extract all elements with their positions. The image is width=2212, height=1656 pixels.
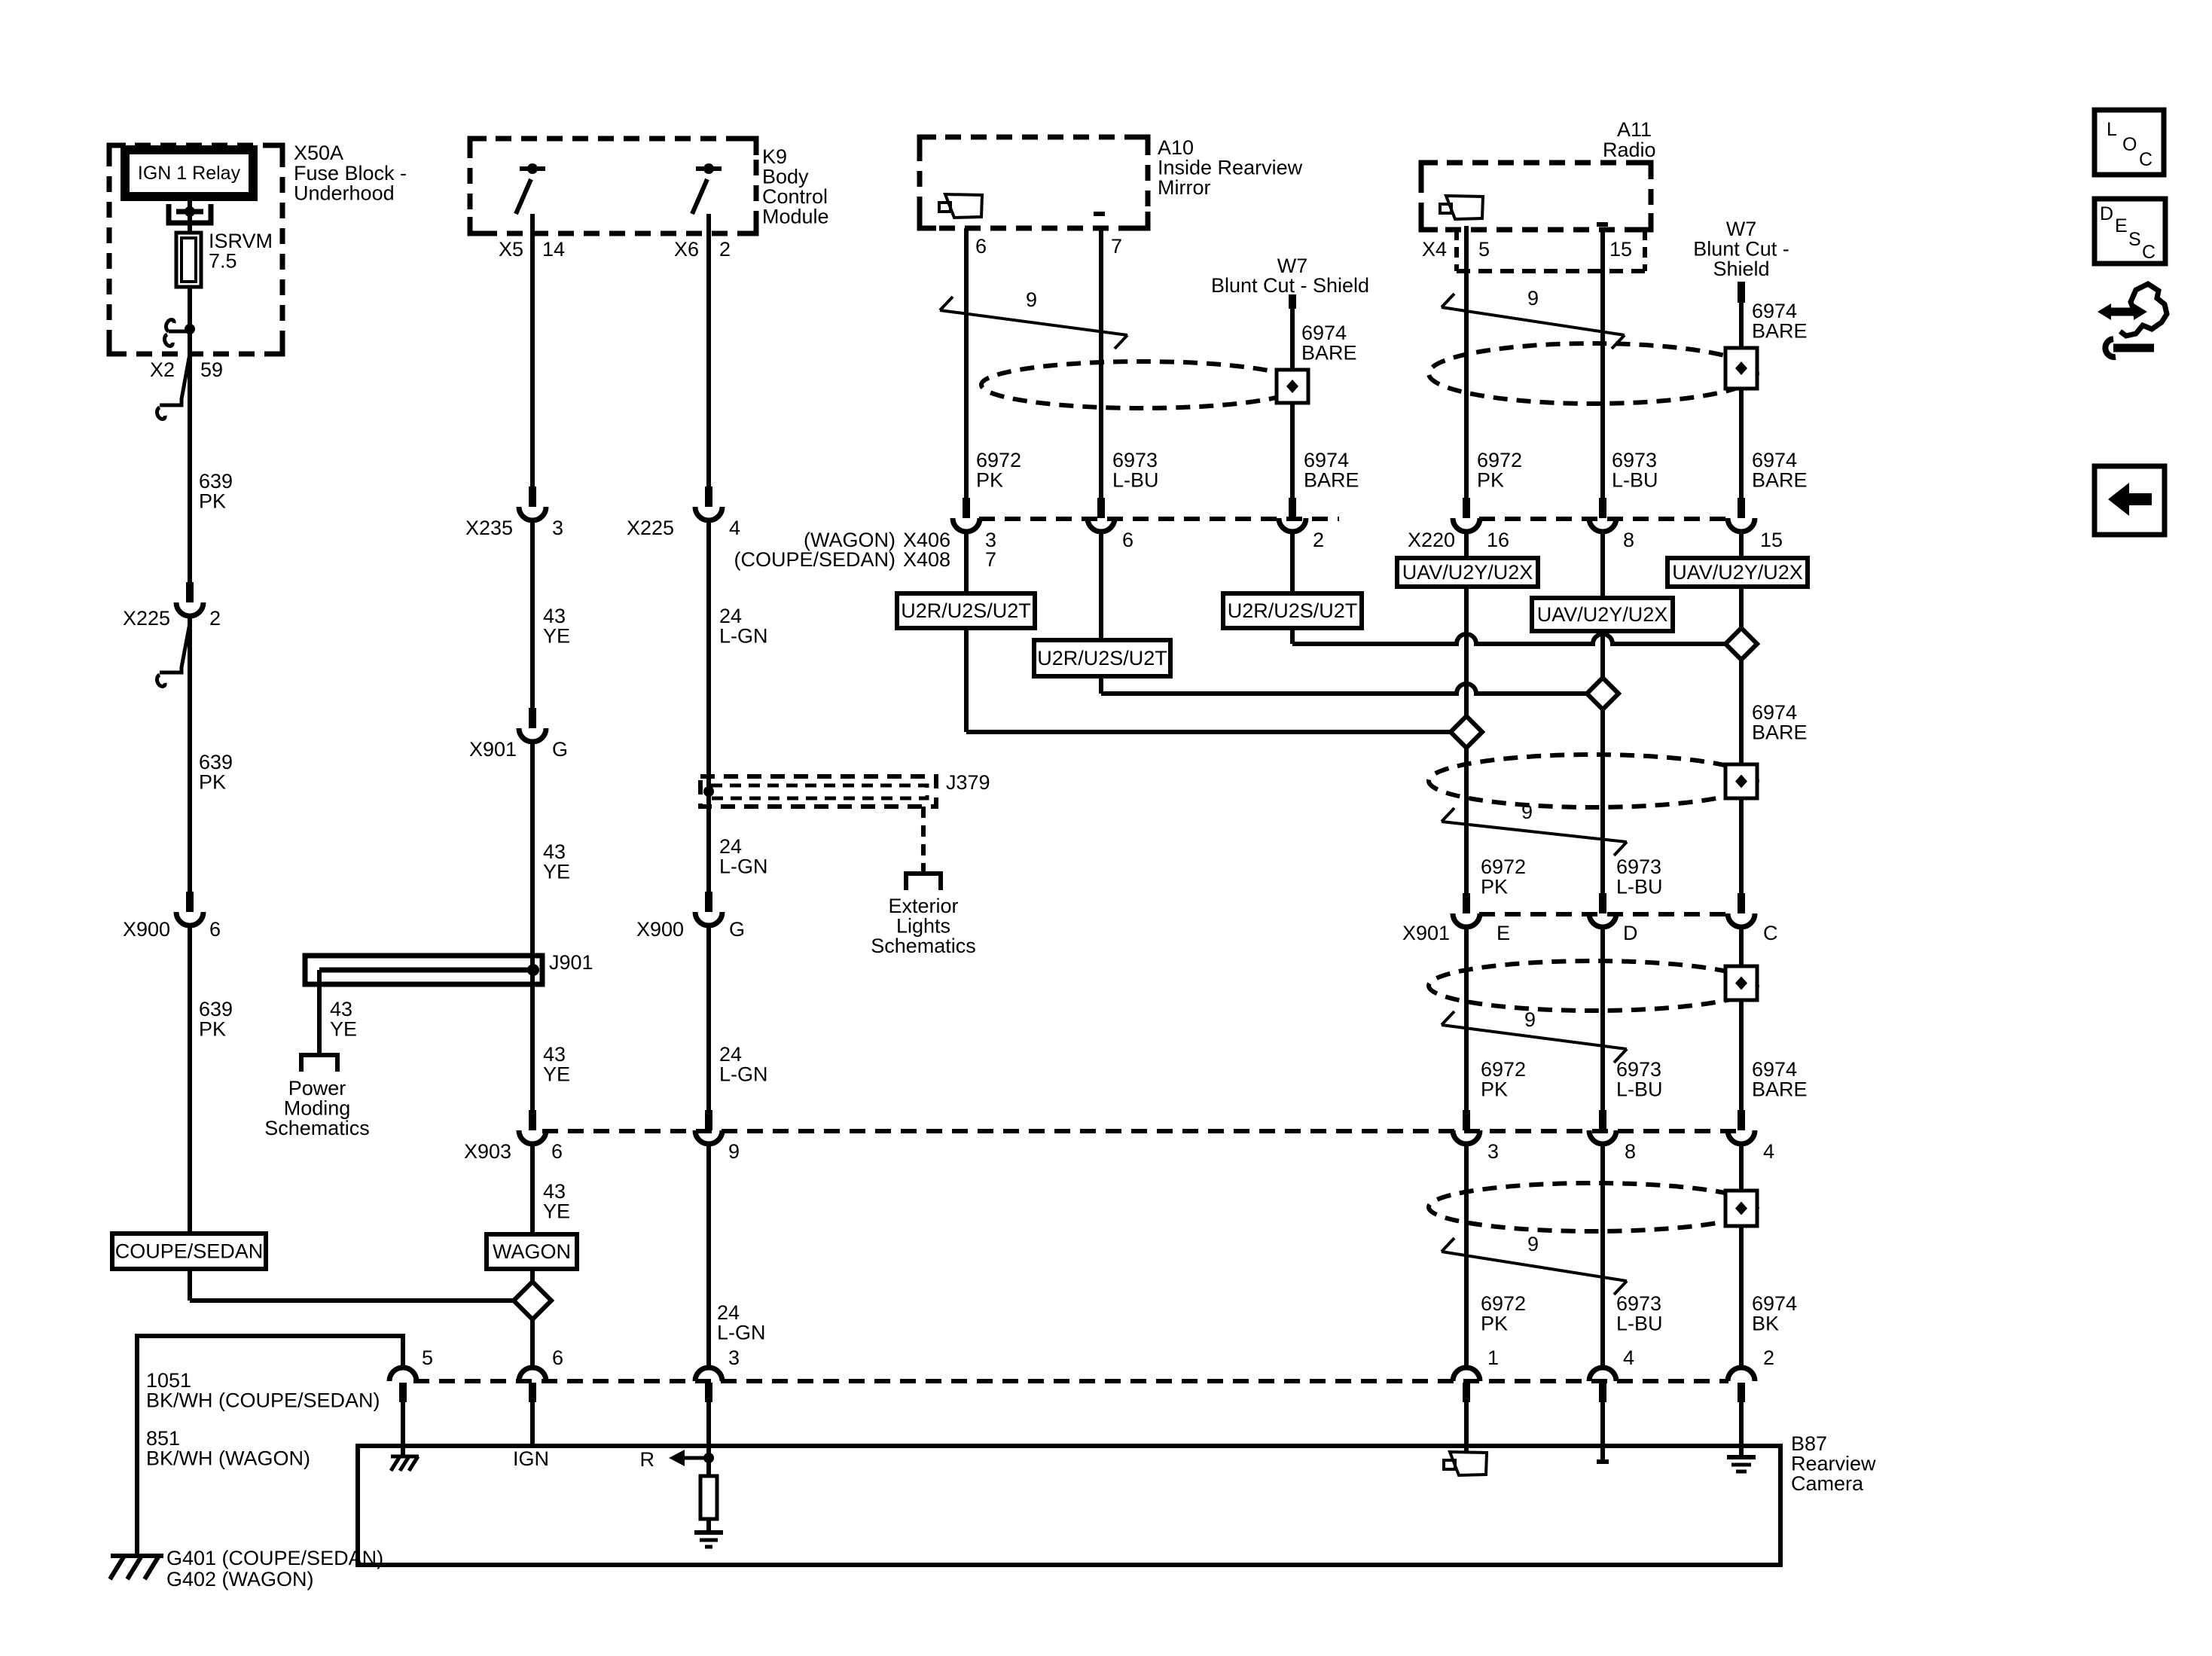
terminal junction at fuse block exit: [164, 320, 195, 346]
svg-text:E: E: [2115, 215, 2128, 236]
inside rearview mirror A10 dashed box: [920, 137, 1148, 228]
svg-text:A11: A11: [1617, 118, 1652, 141]
wire L-BU into U2R box: [1099, 532, 1103, 640]
wire 43 YE segment 2: [530, 520, 535, 708]
wire BARE into U2R box: [1290, 532, 1295, 593]
svg-text:C: C: [1763, 922, 1778, 944]
connector X903 pin 3: [1453, 1110, 1480, 1144]
svg-text:D: D: [1623, 922, 1638, 944]
svg-text:15: 15: [1609, 238, 1632, 261]
wire 6974 BARE down radio: [1739, 587, 1744, 893]
wire splice to camera conn: [530, 1319, 535, 1368]
RPO box U2R/U2S/U2T (PK): [897, 593, 1035, 628]
svg-text:2: 2: [1313, 529, 1324, 551]
wire 24 L-GN segment 2: [706, 520, 711, 892]
connector pin 6 to camera: [519, 1368, 546, 1402]
wire fuse to X2 terminal: [188, 287, 192, 354]
wire L-BU to camera conn: [1600, 1144, 1605, 1368]
svg-text:UAV/U2Y/U2X: UAV/U2Y/U2X: [1402, 561, 1533, 584]
svg-text:2: 2: [719, 238, 731, 261]
wire shield drain mirror: [1290, 309, 1295, 370]
svg-text:6: 6: [209, 918, 221, 941]
wire 6972 PK from A10 pin 6: [964, 228, 969, 498]
wire L-BU into UAV box: [1600, 532, 1605, 598]
wire BARE into UAV box: [1739, 532, 1744, 558]
connector X406/X408 pin 3/7: [953, 498, 980, 532]
off-page fork to Power Moding: [301, 1055, 337, 1072]
wire BARE into B87: [1739, 1402, 1744, 1455]
svg-text:Radio: Radio: [1603, 139, 1656, 161]
RPO box UAV/U2Y/U2X (PK): [1397, 558, 1538, 587]
svg-text:6973L-BU: 6973L-BU: [1612, 449, 1658, 492]
svg-text:C: C: [2142, 242, 2156, 263]
resistor in B87: [700, 1476, 717, 1519]
wire PK to camera conn: [1464, 1144, 1469, 1368]
connector X220 pin 16: [1453, 498, 1480, 532]
connector camera pin 4: [1589, 1368, 1616, 1402]
splice diamond PK: [1451, 716, 1482, 748]
svg-text:UAV/U2Y/U2X: UAV/U2Y/U2X: [1537, 603, 1668, 626]
wire count 9 slash radio 2: [1442, 801, 1627, 855]
wire IGN into B87: [530, 1402, 535, 1446]
wire 43 YE branch from J901: [317, 970, 322, 1054]
svg-text:X900: X900: [123, 918, 170, 941]
svg-text:4: 4: [1623, 1346, 1634, 1369]
shielded cable ellipse radio 2: [1429, 755, 1757, 807]
splice diamond BARE: [1725, 628, 1757, 660]
wire PK into UAV box: [1464, 532, 1469, 558]
shield termination box mirror: [1277, 370, 1308, 403]
svg-text:U2R/U2S/U2T: U2R/U2S/U2T: [1037, 647, 1167, 669]
svg-text:J379: J379: [946, 771, 990, 794]
wire BARE to X903: [1739, 927, 1744, 1110]
wire WAGON to splice: [530, 1269, 535, 1282]
svg-text:X903: X903: [464, 1140, 511, 1163]
svg-text:6: 6: [552, 1346, 563, 1369]
connector X406/X408 pin 6: [1088, 498, 1115, 532]
wire relay to fuse: [188, 197, 192, 233]
svg-text:6973L-BU: 6973L-BU: [1616, 855, 1663, 898]
RPO box UAV/U2Y/U2X (BARE): [1667, 558, 1808, 587]
wire to resistor: [706, 1458, 711, 1476]
off-page fork exterior lights: [906, 874, 941, 890]
wire below COUPE/SEDAN: [188, 1269, 192, 1301]
wire PK down to splice line: [964, 628, 969, 732]
svg-text:9: 9: [1026, 288, 1037, 311]
icon harness routing wrench: [2098, 284, 2167, 357]
ground IEC in B87: [694, 1532, 723, 1547]
wire PK splice line: [966, 730, 1451, 734]
shielded cable ellipse radio 3: [1429, 961, 1757, 1011]
shield termination box radio 2: [1725, 764, 1757, 798]
blunt cut stub W7 mirror: [1289, 294, 1296, 309]
svg-text:X6: X6: [674, 238, 699, 261]
svg-text:5: 5: [1478, 238, 1490, 261]
svg-text:L: L: [2107, 119, 2117, 140]
svg-text:7: 7: [1111, 235, 1122, 258]
svg-text:15: 15: [1760, 529, 1783, 551]
connector X901 pin C: [1728, 893, 1755, 927]
svg-text:7: 7: [985, 548, 996, 571]
connector X901 pin E: [1453, 893, 1480, 927]
wire 639 PK segment 2: [188, 616, 192, 892]
svg-text:8: 8: [1623, 529, 1634, 551]
connector X406/X408 pin 2: [1279, 498, 1306, 532]
wire resistor to ground: [706, 1519, 711, 1530]
wire L-BU down to splice line: [1099, 676, 1103, 694]
svg-text:6973L-BU: 6973L-BU: [1616, 1292, 1663, 1335]
wire 6973 L-BU down radio: [1600, 631, 1605, 893]
svg-text:4: 4: [1763, 1140, 1774, 1163]
svg-text:1: 1: [1487, 1346, 1499, 1369]
svg-text:C: C: [2139, 149, 2153, 170]
svg-text:4: 4: [729, 517, 740, 539]
connector X903 pin 6: [519, 1110, 546, 1144]
svg-text:X4: X4: [1422, 238, 1447, 261]
connector X235 pin 3: [519, 486, 546, 520]
wire BARE down to splice line: [1290, 628, 1295, 644]
wire L-BU into B87: [1600, 1402, 1605, 1459]
wire to splice diamond: [190, 1298, 514, 1303]
connector X4 dashed sub-box: [1457, 230, 1645, 271]
svg-text:8: 8: [1625, 1140, 1636, 1163]
svg-text:5: 5: [422, 1346, 433, 1369]
icon DESC box: [2095, 199, 2165, 264]
svg-text:9: 9: [1521, 801, 1533, 823]
svg-text:9: 9: [1524, 1008, 1536, 1031]
wire 43 YE segment 4: [530, 1144, 535, 1234]
icon LOC box: [2095, 110, 2164, 175]
svg-text:2: 2: [1763, 1346, 1774, 1369]
wire 6973 L-BU from A11 pin 15: [1600, 230, 1605, 498]
connector camera pin 2: [1728, 1368, 1755, 1402]
relay output terminal bracket: [169, 204, 211, 223]
wire 6974 BARE mirror to connector: [1290, 403, 1295, 498]
svg-text:59: 59: [200, 358, 223, 381]
shield termination box radio 1: [1725, 348, 1757, 389]
wire 24 L-GN segment 3: [706, 926, 711, 1110]
shield termination box radio 4: [1725, 1191, 1757, 1226]
svg-text:9: 9: [1527, 287, 1539, 310]
svg-text:3: 3: [552, 517, 563, 539]
icon back arrow box: [2095, 466, 2165, 535]
camera icon in A10: [939, 194, 982, 218]
chassis ground G401/G402: [110, 1556, 163, 1579]
switch contact X6 inside K9: [692, 163, 722, 214]
arrow R signal: [669, 1450, 709, 1466]
shield termination box radio 3: [1725, 966, 1757, 1000]
dashed connector line camera row: [413, 1379, 1728, 1383]
svg-text:6973L-BU: 6973L-BU: [1616, 1058, 1663, 1101]
svg-text:R: R: [640, 1448, 655, 1471]
relay K (IGN 1 Relay) box: [125, 150, 253, 197]
svg-text:16: 16: [1487, 529, 1509, 551]
shielded cable ellipse radio 1: [1429, 343, 1757, 404]
dashed branch to exterior lights: [921, 807, 926, 872]
wire shield drain radio: [1739, 303, 1744, 348]
svg-text:3: 3: [728, 1346, 740, 1369]
wire count 9 slash mirror: [940, 288, 1127, 349]
connector X900 pin G: [695, 892, 722, 926]
WAGON option box: [487, 1234, 577, 1269]
shielded cable ellipse mirror: [981, 361, 1302, 408]
svg-text:6: 6: [1122, 529, 1133, 551]
chassis ground in B87: [391, 1456, 419, 1471]
wire count 9 slash radio 4: [1442, 1233, 1627, 1295]
svg-text:2: 2: [209, 607, 221, 630]
wire PK to X903: [1464, 927, 1469, 1110]
svg-text:9: 9: [1527, 1233, 1539, 1255]
wire 43 YE from K9 X5-14: [530, 214, 535, 486]
minus terminal in B87: [1597, 1459, 1609, 1464]
svg-text:X225: X225: [627, 517, 674, 539]
wire BARE to camera conn: [1739, 1144, 1744, 1368]
svg-text:3: 3: [1487, 1140, 1499, 1163]
connector X225 pin 2: [176, 582, 203, 616]
camera icon in A11: [1440, 196, 1483, 219]
svg-text:X2: X2: [150, 358, 175, 381]
connector X900 pin 6: [176, 892, 203, 926]
svg-text:IGN: IGN: [513, 1447, 549, 1470]
fuse ISRVM 7.5: [176, 233, 201, 287]
svg-text:Fuse Block -Underhood: Fuse Block -Underhood: [294, 162, 407, 205]
blunt cut stub W7 radio: [1738, 282, 1745, 303]
svg-text:G: G: [729, 918, 745, 941]
connector X220 pin 8: [1589, 498, 1616, 532]
RPO box U2R/U2S/U2T (L-BU): [1034, 640, 1170, 676]
COUPE/SEDAN option box: [112, 1234, 266, 1269]
svg-text:COUPE/SEDAN: COUPE/SEDAN: [115, 1240, 264, 1263]
splice pack J901 box: [305, 956, 542, 984]
camera icon in B87: [1444, 1452, 1487, 1475]
svg-text:9: 9: [728, 1140, 740, 1163]
wire ground G401 path: [137, 1336, 403, 1554]
wire 639 PK segment 1: [188, 354, 192, 582]
switch contact X5 inside K9: [516, 163, 545, 214]
connector X225 jog symbol: [157, 624, 190, 686]
wire ground into B87: [401, 1402, 405, 1456]
connector X225 pin 4: [695, 486, 722, 520]
fuse block X50A dashed box: [109, 145, 282, 354]
svg-text:O: O: [2122, 134, 2137, 155]
wire 6972 PK down radio: [1464, 587, 1469, 893]
svg-text:J901: J901: [549, 951, 593, 974]
connector X903 pin 4: [1728, 1110, 1755, 1144]
svg-text:X220: X220: [1408, 529, 1455, 551]
wire 6974 BARE radio to connector: [1739, 389, 1744, 498]
svg-text:E: E: [1497, 922, 1510, 944]
wire PK into U2R box: [964, 532, 969, 593]
splice diamond L-BU: [1587, 678, 1619, 709]
radio A11 dashed box: [1421, 163, 1651, 230]
ground IEC in B87 right: [1727, 1457, 1756, 1471]
svg-text:IGN 1 Relay: IGN 1 Relay: [138, 163, 241, 184]
svg-text:S: S: [2128, 229, 2141, 250]
svg-text:X901: X901: [1402, 922, 1450, 944]
svg-text:X50A: X50A: [294, 142, 343, 164]
wire count 9 slash radio 3: [1442, 1008, 1627, 1063]
wire L-BU splice line with hop: [1101, 684, 1588, 694]
svg-text:X235: X235: [465, 517, 513, 539]
svg-text:X225: X225: [123, 607, 170, 630]
wire 6973 L-BU from A10 pin 7: [1099, 228, 1103, 498]
svg-text:Blunt Cut - Shield: Blunt Cut - Shield: [1211, 274, 1369, 297]
svg-text:6973L-BU: 6973L-BU: [1112, 449, 1159, 492]
body control module K9 dashed box: [470, 139, 756, 233]
wire 24 L-GN from K9 X6-2: [706, 214, 711, 486]
wire 6972 PK from A11 pin 5: [1464, 226, 1469, 498]
connector X2 jog symbol: [157, 354, 190, 419]
svg-text:G: G: [552, 738, 568, 761]
svg-text:U2R/U2S/U2T: U2R/U2S/U2T: [1228, 599, 1358, 622]
wire PK into B87: [1464, 1402, 1469, 1452]
dashed connector line X901 row: [1479, 912, 1728, 916]
connector camera pin 1: [1453, 1368, 1480, 1402]
splice diamond S-wagon: [514, 1282, 551, 1319]
dashed connector line X406 row: [979, 517, 1339, 521]
svg-text:X5: X5: [499, 238, 523, 261]
junction dot R: [703, 1453, 714, 1463]
wire BARE splice line with hops: [1292, 634, 1726, 644]
connector camera pin 5 ground: [389, 1368, 416, 1402]
wire 43 YE segment 3: [530, 742, 535, 1110]
RPO box U2R/U2S/U2T (BARE): [1223, 593, 1362, 628]
wire L-BU to X903: [1600, 927, 1605, 1110]
minus terminal in A11: [1597, 222, 1608, 227]
svg-text:14: 14: [542, 238, 565, 261]
connector X901 pin D: [1589, 893, 1616, 927]
connector X220 pin 15: [1728, 498, 1755, 532]
svg-text:UAV/U2Y/U2X: UAV/U2Y/U2X: [1672, 561, 1803, 584]
shielded cable ellipse radio 4: [1429, 1183, 1757, 1231]
svg-text:6: 6: [551, 1140, 563, 1163]
svg-text:WAGON: WAGON: [493, 1240, 571, 1263]
wire count 9 slash radio: [1442, 287, 1625, 349]
svg-text:X408: X408: [903, 548, 950, 571]
connector X903 pin 9: [695, 1110, 722, 1144]
rearview camera B87 box: [358, 1446, 1780, 1565]
wire 639 PK segment 3: [188, 926, 192, 1234]
dashed connector line X903 row: [542, 1129, 1741, 1133]
connector X901 pin G: [519, 708, 546, 742]
wire R into B87: [706, 1402, 711, 1456]
connector pin 3 reverse input: [695, 1368, 722, 1402]
svg-text:X901: X901: [469, 738, 517, 761]
junction J379 dashed box: [700, 776, 936, 807]
dashed connector line X220 row: [1479, 517, 1728, 521]
svg-text:X900: X900: [636, 918, 684, 941]
svg-text:(COUPE/SEDAN): (COUPE/SEDAN): [734, 548, 895, 571]
wire 24 L-GN segment 4: [706, 1144, 711, 1368]
minus terminal in A10: [1094, 212, 1105, 216]
svg-text:6: 6: [975, 235, 987, 258]
connector X903 pin 8: [1589, 1110, 1616, 1144]
svg-text:D: D: [2100, 203, 2113, 224]
RPO box UAV/U2Y/U2X (L-BU): [1532, 598, 1673, 631]
svg-text:U2R/U2S/U2T: U2R/U2S/U2T: [901, 599, 1031, 622]
